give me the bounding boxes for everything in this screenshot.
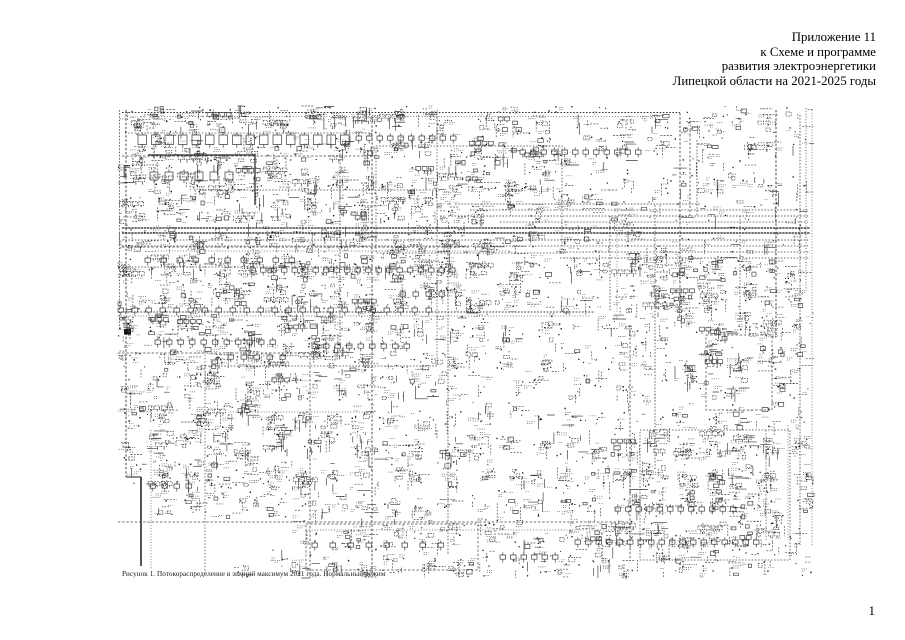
substation cluster r8c22	[758, 344, 778, 366]
substation cluster r12c15	[560, 463, 574, 488]
substation cluster r1c5	[270, 148, 288, 167]
substation cluster r0c5	[263, 119, 286, 131]
wire left step	[126, 476, 141, 478]
substation cluster r15c7	[323, 557, 341, 570]
switchgear bay row M2	[250, 265, 455, 275]
substation cluster r5c4	[242, 260, 260, 277]
substation cluster r3c12	[472, 202, 493, 218]
substation cluster r1c3	[213, 148, 229, 165]
substation cluster r1c6	[293, 137, 314, 158]
substation cluster r0c19	[688, 123, 698, 134]
substation cluster r3c2	[177, 198, 196, 222]
substation cluster r14c13	[507, 527, 523, 538]
substation cluster r3c16	[582, 195, 598, 203]
wire right feeder 3	[805, 108, 807, 290]
substation cluster r6c19	[669, 291, 690, 312]
substation cluster r14c15	[569, 520, 579, 534]
substation cluster r15c14	[538, 552, 551, 572]
substation cluster r9c23	[803, 391, 806, 393]
substation cluster r10c8	[354, 405, 375, 430]
substation cluster r7c7	[321, 317, 350, 330]
substation cluster r0c14	[528, 117, 546, 133]
substation cluster r10c17	[618, 418, 625, 420]
substation cluster r0c2	[178, 113, 199, 134]
substation cluster r15c12	[468, 558, 493, 576]
wire tie H3	[122, 246, 470, 248]
wire center riser 6	[654, 205, 656, 470]
substation cluster r0c7	[321, 114, 347, 125]
substation cluster r2c6	[299, 179, 320, 194]
switchgear bay row M3	[118, 305, 432, 315]
substation cluster r12c10	[408, 475, 422, 482]
substation cluster r0c23	[786, 131, 800, 137]
substation cluster r6c6	[296, 291, 317, 307]
substation cluster r1c1	[151, 137, 173, 160]
wire right feeder 7	[811, 110, 813, 545]
substation cluster r6c14	[527, 291, 541, 307]
substation cluster r4c3	[219, 235, 232, 241]
substation cluster r7c9	[388, 327, 404, 335]
substation cluster r13c18	[640, 492, 666, 513]
substation cluster r10c19	[676, 407, 697, 428]
substation cluster r3c20	[713, 207, 724, 214]
wire right feeder 5	[696, 140, 698, 216]
substation cluster r7c6	[292, 317, 316, 341]
substation cluster r4c4	[247, 237, 261, 252]
substation cluster r2c23	[806, 191, 814, 193]
substation cluster r9c5	[264, 374, 284, 397]
substation cluster r13c13	[498, 492, 519, 520]
substation cluster r15c4	[244, 574, 253, 577]
substation cluster r2c4	[236, 168, 262, 188]
substation cluster r12c21	[728, 463, 752, 479]
substation cluster r12c22	[756, 474, 779, 491]
substation cluster r7c12	[470, 315, 485, 337]
substation cluster r7c0	[118, 317, 140, 335]
substation cluster r7c20	[708, 321, 725, 343]
wire bus corridor 4	[500, 221, 808, 223]
substation cluster r10c18	[642, 403, 662, 425]
substation cluster r3c5	[273, 200, 288, 224]
substation cluster r0c11	[440, 121, 461, 135]
substation cluster r0c18	[642, 115, 661, 133]
substation cluster r3c9	[381, 198, 404, 220]
substation cluster r3c19	[683, 196, 692, 225]
substation cluster r3c3	[205, 203, 229, 221]
substation cluster r13c3	[208, 492, 229, 516]
substation cluster r11c16	[586, 443, 600, 461]
substation cluster r11c21	[731, 435, 750, 456]
substation cluster r12c2	[181, 465, 195, 484]
substation cluster r5c7	[321, 258, 345, 282]
substation cluster r4c13	[512, 237, 520, 247]
substation cluster r8c2	[176, 351, 204, 361]
substation cluster r3c11	[439, 197, 464, 222]
substation cluster r11c20	[699, 440, 721, 460]
substation outline B3	[640, 430, 790, 560]
substation cluster r2c18	[655, 184, 669, 192]
substation cluster r9c15	[574, 378, 581, 398]
substation cluster r10c6	[292, 412, 320, 428]
substation cluster r2c1	[149, 168, 173, 196]
substation cluster r7c18	[645, 314, 668, 341]
substation cluster r11c13	[499, 439, 514, 449]
substation cluster r14c10	[410, 526, 430, 541]
substation cluster r2c16	[596, 169, 608, 173]
substation cluster r12c1	[154, 464, 173, 478]
page number	[869, 603, 876, 619]
substation cluster r9c0	[129, 386, 145, 394]
switchgear bay row B1	[312, 540, 444, 550]
wire mid drop 2	[616, 216, 618, 312]
substation cluster r11c12	[470, 433, 490, 453]
substation cluster r9c2	[177, 373, 202, 401]
substation cluster r5c11	[439, 258, 457, 275]
header appendix title	[673, 30, 876, 89]
substation cluster r5c6	[294, 262, 314, 279]
wire mid-left riser	[204, 345, 206, 575]
substation cluster r4c11	[440, 227, 458, 247]
substation cluster r7c13	[502, 326, 523, 343]
substation cluster r2c3	[219, 179, 233, 194]
substation cluster r8c1	[165, 356, 176, 365]
substation cluster r8c19	[679, 361, 693, 371]
substation outline B2	[706, 335, 772, 410]
substation cluster r10c11	[449, 416, 452, 418]
substation cluster r11c9	[386, 438, 400, 461]
substation cluster r8c14	[542, 355, 551, 370]
substation cluster r9c3	[205, 372, 223, 388]
substation cluster r2c13	[505, 180, 522, 193]
substation cluster r11c0	[119, 447, 136, 452]
substation cluster r8c4	[246, 355, 258, 370]
substation cluster r15c5	[270, 558, 281, 563]
substation cluster r1c9	[385, 138, 408, 155]
wire tie H2	[205, 189, 440, 191]
substation cluster r14c7	[333, 532, 347, 550]
substation cluster r9c16	[586, 380, 593, 382]
substation cluster r9c6	[298, 375, 318, 398]
substation cluster r4c14	[526, 225, 541, 240]
substation cluster r13c23	[801, 499, 814, 510]
substation cluster r11c18	[645, 431, 667, 444]
substation cluster r9c19	[674, 372, 697, 385]
substation cluster r8c6	[309, 342, 319, 359]
substation cluster r6c7	[322, 287, 349, 308]
substation cluster r10c12	[468, 409, 491, 429]
substation cluster r7c21	[735, 313, 751, 330]
substation outline B4	[306, 524, 478, 570]
substation cluster r8c15	[561, 342, 564, 344]
substation cluster r14c20	[700, 525, 720, 546]
wire center riser 1	[371, 117, 373, 575]
node left junction	[124, 329, 131, 335]
substation cluster r10c20	[714, 413, 727, 429]
substation cluster r3c14	[534, 196, 549, 223]
substation cluster r11c2	[176, 431, 202, 445]
substation cluster r15c9	[384, 555, 406, 572]
substation cluster r4c17	[617, 230, 634, 241]
substation cluster r1c2	[180, 141, 202, 161]
substation cluster r9c7	[333, 381, 347, 391]
substation cluster r14c21	[730, 523, 748, 546]
substation cluster r13c10	[414, 507, 430, 518]
substation cluster r2c0	[118, 165, 140, 182]
substation cluster r3c13	[498, 195, 523, 204]
substation cluster r15c6	[292, 560, 313, 570]
substation cluster r15c8	[360, 562, 378, 576]
substation cluster r4c10	[408, 225, 428, 245]
wire left feeder 1	[119, 110, 121, 330]
substation cluster r7c10	[414, 314, 430, 327]
wire SE column 2	[787, 425, 789, 540]
substation cluster r5c12	[466, 262, 486, 278]
substation cluster r6c20	[698, 285, 724, 311]
substation cluster r12c18	[641, 463, 664, 482]
substation cluster r3c23	[788, 222, 796, 224]
substation cluster r6c10	[420, 283, 436, 299]
substation cluster r12c14	[524, 482, 552, 487]
substation cluster r11c6	[307, 441, 318, 459]
substation cluster r0c17	[620, 116, 636, 134]
substation cluster r4c19	[672, 242, 688, 255]
substation cluster r10c21	[727, 408, 753, 424]
substation cluster r11c14	[537, 441, 550, 455]
wire mid drop 1	[609, 216, 611, 312]
substation cluster r6c11	[445, 283, 464, 296]
substation cluster r14c18	[646, 524, 665, 548]
substation cluster r1c10	[418, 136, 432, 147]
substation cluster r6c5	[265, 285, 287, 310]
substation cluster r5c2	[177, 255, 200, 282]
substation cluster r11c17	[615, 443, 636, 460]
substation cluster r5c8	[352, 255, 375, 283]
wire right drop	[739, 216, 741, 320]
substation cluster r0c15	[559, 108, 580, 119]
substation cluster r1c12	[469, 138, 486, 166]
substation cluster r10c15	[565, 413, 574, 427]
substation cluster r12c7	[321, 471, 344, 477]
substation cluster r0c3	[207, 117, 231, 130]
substation cluster r12c8	[350, 461, 366, 489]
substation cluster r14c23	[793, 534, 801, 547]
substation cluster r4c12	[487, 243, 495, 255]
wire tie H7	[118, 352, 320, 354]
substation cluster r14c17	[612, 521, 634, 543]
substation cluster r2c11	[440, 167, 462, 195]
substation cluster r11c7	[324, 432, 336, 444]
substation cluster r11c19	[681, 439, 694, 459]
substation cluster r5c18	[643, 255, 665, 283]
substation cluster r7c17	[614, 316, 632, 336]
switchgear bay row TL2	[150, 169, 233, 183]
substation cluster r9c14	[524, 372, 532, 389]
wire left feeder 2	[125, 110, 127, 477]
substation cluster r7c2	[180, 314, 199, 341]
substation cluster r13c21	[733, 496, 752, 517]
wire bus corridor 10	[560, 257, 810, 259]
wire bus corridor 2	[470, 209, 808, 211]
substation cluster r14c9	[384, 526, 405, 541]
substation cluster r0c9	[397, 110, 407, 119]
substation cluster r1c23	[802, 142, 808, 144]
substation cluster r3c21	[742, 210, 753, 213]
wire bus corridor 3	[448, 215, 808, 217]
substation cluster r14c14	[534, 534, 550, 548]
substation cluster r4c20	[704, 236, 721, 245]
wire left block edge	[436, 117, 438, 365]
substation cluster r14c6	[292, 526, 305, 543]
substation cluster r2c8	[366, 175, 378, 194]
substation cluster r6c22	[760, 288, 781, 312]
caption figure 1	[122, 570, 385, 578]
substation cluster r8c9	[381, 345, 406, 367]
substation cluster r2c5	[263, 167, 289, 184]
substation cluster r15c22	[763, 567, 774, 574]
substation cluster r5c9	[386, 263, 406, 281]
substation cluster r12c20	[705, 474, 724, 482]
switchgear bay row B2	[575, 537, 759, 547]
substation cluster r15c18	[656, 558, 669, 568]
substation cluster r1c22	[764, 143, 783, 150]
wire bus corridor 1	[455, 203, 700, 205]
substation cluster r6c17	[614, 286, 636, 304]
substation cluster r2c19	[681, 174, 687, 176]
substation cluster r12c23	[794, 465, 812, 482]
substation cluster r6c23	[787, 290, 807, 307]
substation cluster r13c4	[243, 497, 259, 510]
substation cluster r5c13	[509, 262, 523, 274]
substation cluster r13c16	[587, 490, 604, 512]
substation cluster r5c16	[584, 259, 603, 280]
substation cluster r12c12	[480, 460, 493, 481]
substation cluster r14c12	[478, 520, 495, 542]
wire bottom tie 1	[118, 521, 628, 523]
substation cluster r7c4	[235, 325, 260, 344]
substation cluster r11c5	[274, 436, 292, 450]
substation cluster r1c0	[130, 150, 147, 160]
substation cluster r4c15	[555, 228, 575, 248]
substation cluster r2c17	[623, 179, 634, 182]
substation cluster r8c13	[496, 347, 515, 370]
substation cluster r14c16	[584, 521, 611, 546]
substation cluster r10c22	[756, 404, 779, 427]
substation cluster r0c13	[500, 107, 519, 135]
substation cluster r1c13	[495, 149, 509, 164]
substation cluster r5c3	[216, 261, 231, 281]
substation cluster r15c10	[424, 553, 436, 567]
wire heavy tie TL	[148, 155, 255, 205]
substation cluster r4c8	[356, 224, 376, 244]
substation cluster r4c18	[661, 248, 668, 252]
substation cluster r2c12	[467, 171, 485, 191]
substation cluster r7c3	[214, 318, 228, 335]
substation cluster r9c20	[699, 379, 723, 397]
substation cluster r5c19	[670, 256, 692, 283]
substation cluster r8c23	[787, 349, 807, 373]
substation cluster r8c8	[350, 348, 373, 372]
substation cluster r6c18	[648, 288, 668, 304]
substation cluster r12c13	[511, 470, 524, 485]
substation cluster r15c20	[698, 552, 707, 577]
substation cluster r9c18	[645, 397, 650, 399]
substation cluster r4c1	[151, 226, 171, 244]
substation cluster r15c15	[558, 560, 572, 574]
substation cluster r0c1	[148, 110, 168, 135]
substation cluster r6c2	[176, 287, 203, 311]
substation cluster r9c17	[627, 392, 636, 396]
substation cluster r5c17	[627, 254, 640, 271]
substation cluster r5c23	[790, 271, 805, 281]
substation cluster r2c15	[557, 176, 574, 189]
substation cluster r12c5	[268, 471, 287, 485]
switchgear bay row T1	[138, 132, 349, 147]
wire tie H1	[122, 155, 372, 157]
substation cluster r0c22	[758, 109, 774, 125]
substation cluster r10c7	[328, 415, 343, 424]
wire center riser 5	[629, 325, 631, 560]
substation cluster r2c22	[769, 184, 783, 191]
substation cluster r5c0	[118, 267, 143, 283]
substation cluster r9c1	[147, 384, 169, 398]
substation cluster r7c19	[681, 314, 694, 327]
substation cluster r9c22	[772, 377, 785, 393]
substation cluster r8c11	[445, 357, 459, 370]
substation cluster r10c14	[527, 416, 538, 424]
substation cluster r1c4	[234, 137, 253, 166]
switchgear bay row SW1	[150, 481, 192, 491]
substation cluster r6c3	[208, 283, 233, 303]
substation cluster r8c18	[640, 362, 655, 370]
substation cluster r13c14	[526, 492, 550, 512]
substation cluster r11c23	[792, 436, 813, 454]
substation cluster r7c1	[149, 319, 168, 337]
substation cluster r3c1	[156, 198, 174, 211]
substation cluster r10c10	[411, 413, 433, 430]
wire bus corridor 6	[122, 232, 810, 234]
switchgear bay row T3	[520, 147, 641, 157]
substation cluster r7c16	[598, 316, 606, 318]
substation cluster r14c22	[761, 521, 781, 545]
substation cluster r15c11	[450, 561, 464, 576]
wire right feeder 2	[799, 115, 801, 545]
substation cluster r4c6	[295, 226, 316, 253]
substation cluster r4c7	[322, 230, 342, 250]
substation cluster r11c4	[236, 445, 258, 459]
substation cluster r15c21	[733, 557, 751, 568]
substation cluster r1c15	[556, 151, 577, 166]
substation cluster r1c19	[684, 140, 688, 142]
substation cluster r4c5	[263, 227, 287, 241]
substation cluster r5c15	[564, 258, 578, 269]
wire bottom tie 2	[306, 529, 628, 531]
substation cluster r12c17	[615, 468, 636, 479]
substation cluster r3c18	[650, 197, 658, 211]
substation cluster r15c19	[677, 555, 697, 569]
substation cluster r8c0	[124, 344, 140, 363]
substation cluster r3c0	[122, 199, 145, 220]
substation cluster r10c23	[791, 420, 801, 427]
substation cluster r4c22	[764, 234, 779, 244]
substation cluster r10c0	[118, 405, 138, 427]
substation cluster r8c17	[615, 346, 638, 366]
substation cluster r7c15	[553, 324, 560, 326]
substation cluster r4c23	[794, 235, 801, 237]
substation cluster r3c4	[235, 197, 260, 222]
substation cluster r12c6	[292, 468, 307, 490]
substation cluster r6c15	[560, 299, 579, 313]
substation cluster r1c16	[585, 137, 606, 165]
